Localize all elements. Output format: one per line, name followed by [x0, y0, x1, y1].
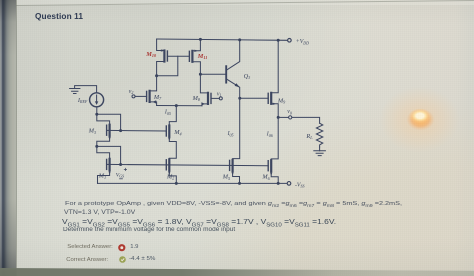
- svg-text:M4: M4: [173, 129, 181, 136]
- svg-text:Q3: Q3: [244, 73, 251, 80]
- node M (M9 drain on rail): [277, 39, 280, 42]
- wire gate bus M10-M11: [167, 55, 189, 57]
- svg-text:RL: RL: [305, 133, 313, 140]
- wire tail bus: [157, 105, 202, 107]
- wire v0 node to terminal: [278, 116, 288, 118]
- question text: [65, 201, 402, 207]
- ground (below RL): [314, 151, 326, 156]
- transistor M5: [230, 160, 233, 171]
- wire Q3 base: [200, 73, 225, 75]
- svg-text:VGS: VGS: [116, 172, 124, 178]
- input terminal v2: [129, 89, 135, 98]
- transistor M9: [268, 93, 271, 104]
- title: [35, 11, 83, 21]
- wire M6 source to VSS rail: [271, 171, 278, 183]
- node D (bottom gate bus junction): [119, 163, 122, 166]
- svg-text:v2: v2: [129, 89, 134, 95]
- minus mark of VGS: [120, 178, 123, 180]
- transistor M2: [166, 159, 169, 170]
- transistor M6: [268, 160, 271, 171]
- output terminal v0: [287, 109, 292, 119]
- node C (M3 source / M1 drain): [95, 145, 98, 148]
- wire v0 node down to M6 drain: [271, 117, 278, 160]
- wire IREF to node A: [96, 107, 98, 114]
- wire M4 source to M2 drain: [169, 137, 176, 160]
- svg-text:M6: M6: [261, 174, 270, 181]
- wire M1 source to VSS rail: [98, 170, 110, 184]
- wire tail down to M4 drain: [169, 106, 176, 126]
- arrow on M9 source: [273, 103, 277, 105]
- wire emitter node to M9 gate: [240, 97, 268, 99]
- correct answer row: [66, 257, 108, 263]
- node E (M10 drain / M7 drain): [155, 74, 158, 77]
- wire M2 source to VSS rail: [169, 170, 176, 183]
- transistor M7: [147, 91, 157, 104]
- svg-text:M1: M1: [98, 173, 106, 180]
- terminal -VSS: [287, 182, 291, 186]
- wire emitter node down to M5 drain: [233, 98, 240, 160]
- node A (IREF/M3 drain junction): [95, 113, 98, 116]
- wire M9 source to v0 node: [271, 104, 278, 118]
- arrow on M5 source: [231, 172, 233, 175]
- wire M8 source to tail: [202, 104, 208, 106]
- svg-text:M2: M2: [166, 173, 174, 180]
- wire bottom gate bus M1-M2-M5-M6: [107, 164, 269, 165]
- wire node C to M1 drain: [97, 146, 110, 159]
- svg-text:v0: v0: [287, 109, 292, 115]
- wire node E to M7 drain: [150, 76, 157, 91]
- node I (Q3 emitter node): [238, 97, 241, 100]
- svg-text:-VSS: -VSS: [295, 182, 304, 188]
- wire v0 terminal to RL: [292, 117, 320, 123]
- wire M11 drain down: [192, 62, 200, 75]
- wire v2 to M7 gate: [135, 95, 147, 97]
- transistor M1: [107, 159, 110, 170]
- resistor RL: [316, 123, 322, 147]
- wire M5 source to VSS rail: [233, 171, 240, 184]
- svg-text:I05: I05: [227, 131, 234, 137]
- arrow on M2 source: [168, 172, 170, 175]
- node B (gate bus M3-M4 junction): [119, 129, 122, 132]
- wire node A to M3 drain: [97, 114, 110, 125]
- node O (M6 source on rail): [277, 182, 280, 185]
- wire node A to M3/M4 gate bus: [97, 114, 121, 130]
- wire M11 source to VDD rail: [192, 39, 200, 50]
- arrow on M10 source: [159, 49, 162, 51]
- transistor M11: [189, 51, 192, 62]
- ground (IREF top): [70, 86, 97, 94]
- svg-text:M7: M7: [153, 94, 162, 101]
- arrow on M11 source: [194, 50, 197, 52]
- wire M7 source to tail: [150, 102, 157, 106]
- svg-text:+VDD: +VDD: [296, 39, 309, 45]
- node L (M5 source on rail): [238, 182, 241, 185]
- node F (M11 source on rail): [199, 38, 202, 41]
- wire M10 source to VDD rail: [157, 39, 165, 51]
- transistor M4: [166, 126, 169, 137]
- transistor M10: [164, 51, 167, 62]
- wire M10 diode link: [157, 56, 178, 75]
- svg-text:v1: v1: [217, 91, 222, 97]
- wire M10 drain down: [157, 62, 165, 76]
- node H (Q3 collector on rail): [238, 38, 241, 41]
- wire RL to ground: [319, 147, 321, 151]
- arrow on M6 source: [270, 172, 272, 175]
- svg-text:M8: M8: [192, 95, 201, 102]
- svg-text:IREF: IREF: [77, 97, 88, 104]
- wire M3 source to node C: [97, 136, 110, 147]
- selected answer row: [67, 244, 113, 250]
- node G (M11 drain / Q3 base / M8 drain): [199, 73, 202, 76]
- svg-text:M3: M3: [88, 128, 96, 135]
- terminal +VDD: [288, 39, 292, 43]
- svg-text:M5: M5: [222, 174, 230, 181]
- transistor Q3: [226, 40, 240, 98]
- wire VDD rail: [157, 39, 288, 40]
- node J (tail junction): [175, 104, 178, 107]
- transistor M8: [201, 93, 211, 106]
- wire VSS rail: [98, 182, 288, 184]
- wire M8 gate to v1: [211, 97, 219, 99]
- wire node G to M8 drain: [200, 74, 208, 93]
- arrow on M1 source: [108, 171, 110, 174]
- svg-text:I06: I06: [266, 132, 273, 138]
- current source IREF: [90, 93, 104, 107]
- node K (M2 source on rail): [175, 182, 178, 185]
- arrow on M3 source: [108, 137, 110, 140]
- input terminal v1: [217, 91, 222, 100]
- svg-text:M11: M11: [197, 53, 208, 60]
- node N (output node v0): [277, 116, 280, 119]
- wire node C to bottom gate bus (M1 diode link): [97, 146, 121, 164]
- svg-text:I05: I05: [164, 110, 171, 116]
- svg-text:M10: M10: [145, 51, 157, 58]
- wire gate bus M3-M4: [107, 129, 167, 132]
- transistor M3: [107, 125, 110, 136]
- arrow on M4 source: [168, 138, 170, 141]
- wire M9 drain to VDD rail: [271, 40, 278, 93]
- plus mark of VGS: [124, 168, 126, 170]
